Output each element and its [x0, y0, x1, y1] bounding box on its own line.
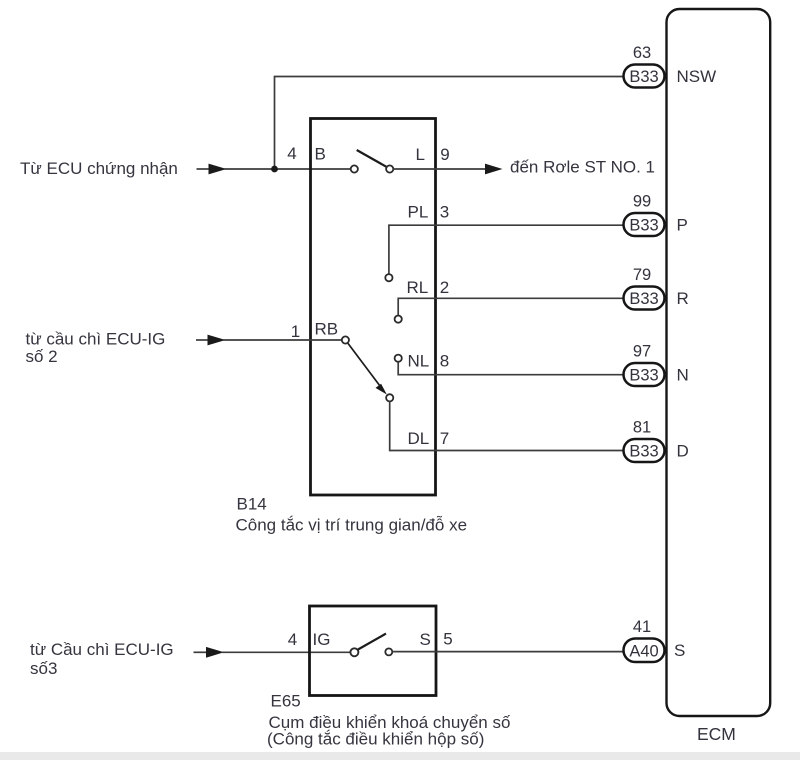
- wire: R net: [398, 298, 624, 316]
- svg-text:P: P: [677, 216, 688, 235]
- svg-text:B33: B33: [629, 290, 658, 308]
- pin label NL: [408, 352, 430, 371]
- svg-text:từ cầu chì ECU-IG: từ cầu chì ECU-IG: [26, 330, 166, 349]
- switch contact RB: [342, 336, 349, 343]
- svg-text:IG: IG: [313, 630, 331, 649]
- svg-text:B33: B33: [629, 443, 658, 461]
- label: (Cong tac dieu khien hop so): [267, 730, 484, 749]
- svg-text:Công tắc vị trí trung gian/đỗ: Công tắc vị trí trung gian/đỗ xe: [236, 516, 468, 535]
- svg-text:B33: B33: [629, 68, 658, 86]
- pin label B: [315, 145, 326, 164]
- svg-text:S: S: [674, 641, 685, 660]
- svg-text:từ Cầu chì ECU-IG: từ Cầu chì ECU-IG: [30, 640, 174, 659]
- label: Tu ECU chung nhan: [20, 159, 178, 178]
- pin number 41: [633, 618, 651, 636]
- svg-text:97: 97: [633, 343, 651, 361]
- svg-text:4: 4: [287, 144, 296, 163]
- label: tu Cau chi ECU-IG so3: [30, 640, 174, 678]
- contact N: [395, 355, 402, 362]
- pin name NSW: [677, 67, 717, 86]
- svg-text:A40: A40: [629, 643, 658, 661]
- svg-text:4: 4: [288, 630, 297, 649]
- svg-text:D: D: [677, 442, 689, 461]
- svg-text:số 2: số 2: [26, 347, 58, 366]
- pin 3: [440, 203, 449, 222]
- wire: D net: [390, 401, 624, 451]
- svg-text:E65: E65: [271, 692, 301, 711]
- svg-text:(Công tắc điều khiển hộp số): (Công tắc điều khiển hộp số): [267, 730, 484, 749]
- wire: RB feed: [223, 339, 342, 341]
- ECM label: [697, 724, 736, 744]
- label: Cong tac vi tri trung gian/do xe: [236, 516, 468, 535]
- pin name P: [677, 216, 688, 235]
- switch contact L (right): [386, 165, 393, 172]
- pin label S: [420, 630, 431, 649]
- label E65: [271, 692, 301, 711]
- svg-text:9: 9: [440, 145, 449, 164]
- svg-text:S: S: [420, 630, 431, 649]
- switch contact B (left): [351, 165, 358, 172]
- switch blade B-L: [357, 150, 388, 167]
- svg-text:NL: NL: [408, 352, 430, 371]
- switch contact S: [385, 648, 392, 655]
- junction node: [271, 166, 278, 173]
- pin 9: [440, 145, 449, 164]
- svg-text:7: 7: [440, 429, 449, 448]
- wire: S net to ECM: [392, 651, 624, 653]
- pin label DL: [408, 429, 430, 448]
- svg-text:3: 3: [440, 203, 449, 222]
- svg-text:đến Rơle ST NO. 1: đến Rơle ST NO. 1: [510, 158, 655, 177]
- label: Cum dieu khien khoa chuyen so: [269, 713, 511, 732]
- wire: B feed into switch: [224, 168, 351, 170]
- pin number 81: [633, 419, 651, 437]
- pin label PL: [408, 203, 429, 222]
- connector B33 pin 79 R: [624, 287, 665, 310]
- connector A40 pin 41 S: [624, 639, 665, 663]
- connector B33 pin 99 P: [624, 213, 665, 236]
- pin number 97: [633, 343, 651, 361]
- switch contact IG: [350, 648, 358, 656]
- contact D: [386, 394, 393, 401]
- svg-text:B: B: [315, 145, 326, 164]
- switch blade IG-S: [358, 634, 386, 650]
- pin 1: [291, 322, 300, 341]
- svg-text:1: 1: [291, 322, 300, 341]
- ECM connector body U1: [667, 9, 771, 716]
- svg-text:8: 8: [440, 352, 449, 371]
- pin label RL: [407, 278, 429, 297]
- wire: IG feed: [222, 651, 351, 653]
- bottom scan band: [0, 752, 800, 760]
- switch blade RB with arrow: [348, 343, 387, 394]
- wire: P net: [389, 224, 624, 274]
- svg-text:DL: DL: [408, 429, 430, 448]
- pin number 79: [633, 266, 651, 284]
- contact R: [395, 316, 402, 323]
- pin 4 (E65): [288, 630, 297, 649]
- pin 8: [440, 352, 449, 371]
- arrow into B wire: [197, 164, 227, 175]
- arrow into IG wire: [194, 647, 225, 658]
- connector B33 pin 63 NSW: [624, 65, 665, 88]
- svg-text:L: L: [416, 145, 425, 164]
- label B14: [237, 495, 267, 514]
- contact P: [385, 274, 392, 281]
- pin 2: [440, 278, 449, 297]
- wire: NSW horizontal to ECM: [275, 76, 625, 78]
- svg-text:5: 5: [443, 630, 452, 649]
- svg-text:63: 63: [633, 44, 651, 62]
- pin 7: [440, 429, 449, 448]
- svg-text:số3: số3: [30, 659, 57, 678]
- switch box E65: [310, 606, 437, 696]
- svg-text:99: 99: [633, 193, 651, 211]
- svg-text:PL: PL: [408, 203, 429, 222]
- svg-text:B33: B33: [629, 217, 658, 235]
- svg-text:B33: B33: [629, 367, 658, 385]
- pin name R: [677, 289, 689, 308]
- connector B33 pin 81 D: [624, 439, 665, 462]
- svg-text:RL: RL: [407, 278, 429, 297]
- pin name D: [677, 442, 689, 461]
- svg-text:N: N: [677, 366, 689, 385]
- svg-text:ECM: ECM: [697, 724, 736, 744]
- pin name N: [677, 366, 689, 385]
- svg-text:2: 2: [440, 278, 449, 297]
- switch box B14: [311, 119, 436, 496]
- svg-text:41: 41: [633, 618, 651, 636]
- pin number 99: [633, 193, 651, 211]
- svg-text:RB: RB: [315, 320, 339, 339]
- wire: N net: [398, 362, 624, 376]
- wire: L out to relay: [393, 164, 502, 175]
- svg-text:R: R: [677, 289, 689, 308]
- svg-text:Từ ECU chứng nhận: Từ ECU chứng nhận: [20, 159, 178, 178]
- pin label RB: [315, 320, 339, 339]
- label: tu cau chi ECU-IG so 2: [26, 330, 166, 367]
- pin number 63: [633, 44, 651, 62]
- pin name S: [674, 641, 685, 660]
- svg-text:B14: B14: [237, 495, 267, 514]
- arrow into RB wire: [196, 335, 226, 346]
- label: den Role ST NO. 1: [510, 158, 655, 177]
- pin label L: [416, 145, 425, 164]
- pin 4: [287, 144, 296, 163]
- svg-text:81: 81: [633, 419, 651, 437]
- pin label IG: [313, 630, 331, 649]
- connector B33 pin 97 N: [624, 363, 665, 386]
- svg-text:79: 79: [633, 266, 651, 284]
- svg-text:NSW: NSW: [677, 67, 717, 86]
- pin 5 (E65): [443, 630, 452, 649]
- wire: NSW vertical riser: [274, 76, 276, 169]
